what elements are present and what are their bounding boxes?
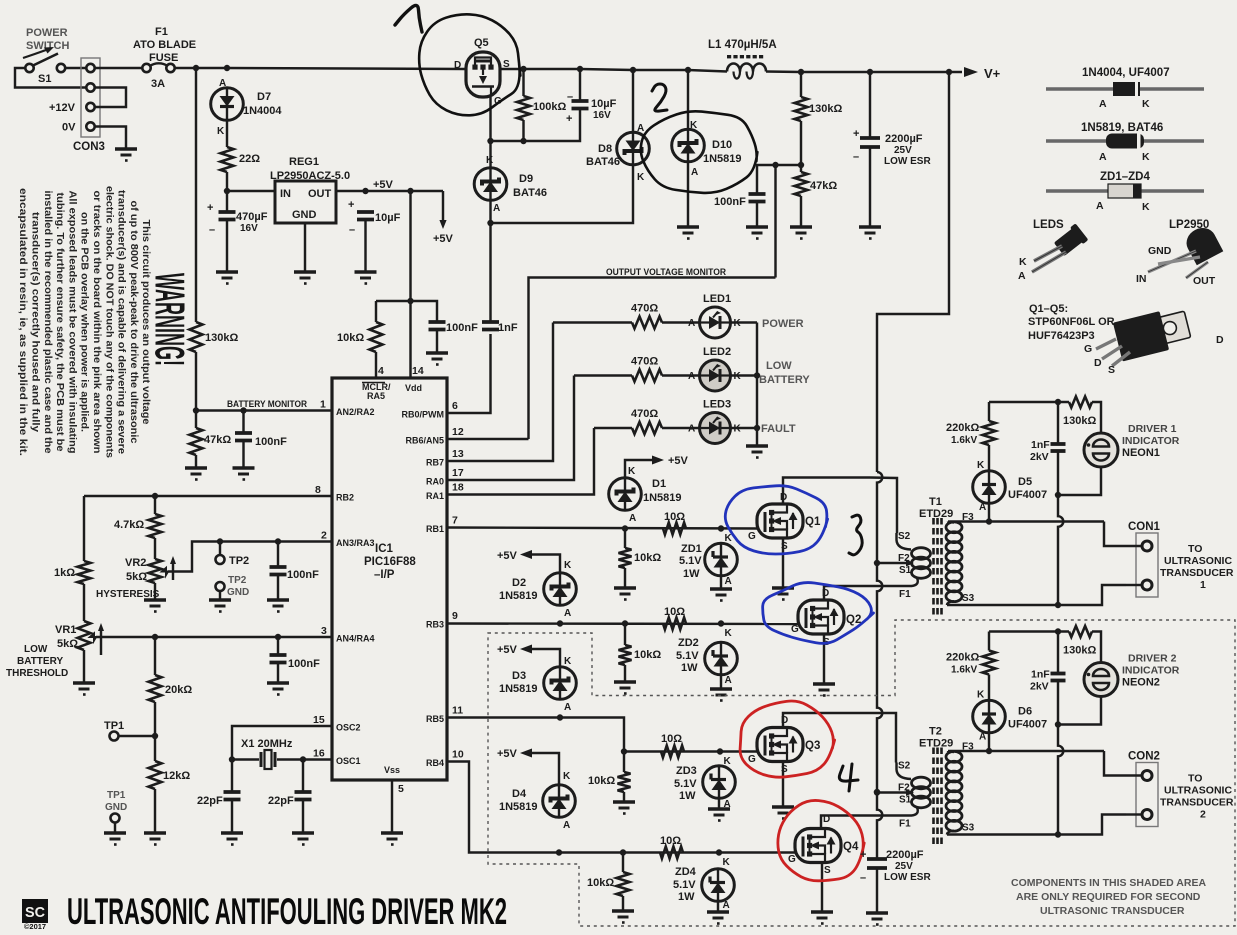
junction 2200uF2 <box>874 789 880 795</box>
annotation digit 1 <box>395 5 422 32</box>
svg-text:+5V: +5V <box>497 644 518 656</box>
inductor L1 <box>727 64 766 79</box>
label ZD3 <box>676 765 697 777</box>
label G of Q4 <box>788 854 796 865</box>
svg-text:NEON1: NEON1 <box>1122 447 1160 459</box>
svg-text:ULTRASONIC: ULTRASONIC <box>1164 785 1232 797</box>
label ZD4 1W <box>678 891 695 903</box>
label 10k row3 <box>588 775 615 787</box>
label S1 T1 <box>899 565 912 576</box>
VR1 adjust arrow <box>98 623 104 655</box>
svg-text:A: A <box>564 608 571 619</box>
capacitor 2200uF2 minus <box>860 872 866 884</box>
svg-text:LOW: LOW <box>766 360 792 372</box>
ground Q3 <box>772 807 794 819</box>
svg-text:NEON2: NEON2 <box>1122 677 1160 689</box>
resistor 470ohm LED1 <box>632 317 662 329</box>
wire D5 anode <box>988 503 990 522</box>
svg-text:4.7kΩ: 4.7kΩ <box>114 519 144 531</box>
wire L1 to V+ arrow <box>766 70 962 73</box>
diode D9 BAT46 <box>474 168 507 201</box>
resistor 47k fb <box>795 172 808 196</box>
label LOW led <box>766 360 792 372</box>
wire V+ vertical with hops <box>877 472 882 859</box>
svg-text:A: A <box>493 203 500 214</box>
svg-text:D4: D4 <box>512 788 527 800</box>
svg-text:D: D <box>1216 334 1224 346</box>
ground ZD4 <box>707 912 729 924</box>
label -I/P <box>374 569 395 581</box>
wire 10k1 gnd <box>624 568 626 587</box>
wire 47k batt stub <box>195 411 197 429</box>
label 470ohm LED2 <box>631 356 658 368</box>
wire F3 T2 <box>950 750 1104 752</box>
label 130k T2 <box>1063 645 1096 657</box>
svg-text:100nF: 100nF <box>446 322 478 334</box>
diode D8 BAT46 <box>617 132 650 165</box>
svg-text:G: G <box>1084 343 1092 355</box>
wire Q3 source gnd <box>782 762 784 807</box>
capacitor 10uF plus <box>348 199 354 211</box>
warning line 9 <box>42 191 53 454</box>
svg-text:K: K <box>486 155 494 166</box>
svg-text:VR2: VR2 <box>125 557 146 569</box>
svg-text:1W: 1W <box>681 662 698 674</box>
svg-text:F2: F2 <box>898 553 910 564</box>
svg-text:OUTPUT VOLTAGE MONITOR: OUTPUT VOLTAGE MONITOR <box>606 267 726 278</box>
svg-text:1nF: 1nF <box>1031 439 1050 451</box>
svg-text:BATTERY: BATTERY <box>759 374 810 386</box>
capacitor 470uF plus <box>207 202 213 214</box>
label AN2/RA2 <box>336 407 375 417</box>
ground 47k fb <box>790 227 812 239</box>
label A of D2 <box>564 608 571 619</box>
svg-text:10µF: 10µF <box>591 98 617 110</box>
svg-text:HUF76423P3: HUF76423P3 <box>1028 330 1095 342</box>
svg-text:1nF: 1nF <box>498 322 518 334</box>
wire CON2 bottom pin <box>1126 813 1141 815</box>
svg-text:D9: D9 <box>519 173 533 185</box>
svg-text:220kΩ: 220kΩ <box>946 422 979 434</box>
svg-text:RA5: RA5 <box>367 391 385 401</box>
label X1 20MHz <box>241 738 293 750</box>
svg-text:TRANSDUCER: TRANSDUCER <box>1160 797 1234 809</box>
svg-text:1: 1 <box>1200 579 1206 591</box>
svg-text:F2: F2 <box>898 783 910 794</box>
label K of ZD1 <box>725 533 733 544</box>
junction 10uF top <box>362 188 368 194</box>
label G of Q1 <box>748 531 756 542</box>
label ZD1 <box>681 543 702 555</box>
svg-text:K: K <box>977 460 985 471</box>
label TRANSDUCER 1 <box>1160 567 1234 579</box>
svg-text:1N5819: 1N5819 <box>703 153 742 165</box>
label 10ohm row1 <box>664 511 685 523</box>
fuse F1 <box>142 63 174 72</box>
ground 10k row1 <box>614 588 636 600</box>
wire TP2 <box>219 542 221 556</box>
svg-text:D: D <box>454 60 461 71</box>
svg-text:13: 13 <box>452 448 464 460</box>
wire VR2 wiper out <box>168 542 332 572</box>
label CON3 <box>73 141 105 153</box>
label D9 <box>519 173 533 185</box>
svg-text:or tracks on the board within: or tracks on the board within the pink a… <box>91 191 102 454</box>
label OUTPUT VOLTAGE MONITOR <box>606 267 726 278</box>
neon NEON2 <box>1084 663 1118 697</box>
svg-text:ZD1: ZD1 <box>681 543 702 555</box>
svg-text:IN: IN <box>280 188 291 200</box>
zener ZD1 <box>705 543 738 576</box>
label D2 <box>512 577 526 589</box>
label OSC2 <box>336 723 361 733</box>
transistor Q1 <box>757 504 803 538</box>
label 470ohm LED3 <box>631 408 658 420</box>
resistor 100k <box>517 96 530 120</box>
wire CON2 top pin <box>1104 751 1141 776</box>
svg-text:8: 8 <box>315 484 321 496</box>
wire 470 to LED3 <box>662 427 700 429</box>
wire 10k2 gnd <box>624 665 626 681</box>
svg-text:encapsulated in resin, ie, as: encapsulated in resin, ie, as supplied i… <box>17 188 28 456</box>
wire 470 to LED1 <box>662 321 700 323</box>
wire Q1 drain <box>783 478 870 505</box>
svg-text:A: A <box>725 576 732 587</box>
svg-text:ZD4: ZD4 <box>675 866 697 878</box>
svg-text:ZD1–ZD4: ZD1–ZD4 <box>1100 171 1150 183</box>
wire S1 to CON3 pin1 <box>65 67 86 69</box>
label pin15 <box>313 714 325 726</box>
label V+ <box>984 66 1001 81</box>
label pin7 <box>452 515 458 527</box>
svg-text:100nF: 100nF <box>288 658 320 670</box>
svg-text:K: K <box>723 857 731 868</box>
diode D1 1N5819 <box>609 478 642 511</box>
junction sense S3 T2 <box>1055 831 1061 837</box>
label G of Q5 <box>494 96 502 107</box>
svg-text:K: K <box>564 560 572 571</box>
ground Q4 <box>811 912 833 924</box>
legend LP2950 package <box>1148 223 1223 278</box>
resistor 10ohm row2 <box>663 618 686 630</box>
label BAT46 <box>586 156 620 168</box>
wire 100nF an4 gnd <box>277 663 279 683</box>
switch S1 <box>25 54 65 73</box>
svg-text:TRANSDUCER: TRANSDUCER <box>1160 567 1234 579</box>
transistor Q4 <box>795 829 841 863</box>
svg-text:S1: S1 <box>38 73 51 85</box>
svg-text:S: S <box>824 865 831 876</box>
label PIC16F88 <box>364 556 416 568</box>
wire 4.7k to VR2 <box>154 538 156 559</box>
label S1 <box>38 73 51 85</box>
svg-text:STP60NF06L OR: STP60NF06L OR <box>1028 316 1115 328</box>
junction gate node 490 <box>487 138 493 144</box>
svg-text:INDICATOR: INDICATOR <box>1122 665 1180 677</box>
label legend A1 <box>1099 98 1107 110</box>
svg-text:transducer(s) and is capable o: transducer(s) and is capable of deliveri… <box>116 190 127 454</box>
svg-text:5.1V: 5.1V <box>674 778 697 790</box>
ground ZD3 <box>708 809 730 821</box>
svg-text:0V: 0V <box>62 122 76 134</box>
wire 1k to VR1 <box>83 584 85 621</box>
svg-text:1N5819: 1N5819 <box>643 492 682 504</box>
wire 1nF to node T2 with hop <box>1058 681 1063 835</box>
label K of D9 <box>486 155 494 166</box>
ground led bus <box>746 446 768 458</box>
label LOW bat <box>24 644 48 655</box>
junction ZD1 <box>718 525 724 531</box>
annotation circle around D10 <box>641 111 758 193</box>
resistor 470ohm LED3 <box>632 422 662 434</box>
svg-text:CON3: CON3 <box>73 141 105 153</box>
svg-text:+5V: +5V <box>497 748 518 760</box>
svg-text:RA1: RA1 <box>426 491 444 501</box>
label A LED3 <box>688 424 695 435</box>
label K of ZD4 <box>723 857 731 868</box>
label A of D9 <box>493 203 500 214</box>
annotation digit 2 <box>652 84 667 111</box>
label NEON2 <box>1122 677 1160 689</box>
wire 22pF right gnd <box>302 800 304 833</box>
wire ZD4 gnd <box>717 902 719 912</box>
svg-text:All exposed leads must be cove: All exposed leads must be covered with i… <box>66 191 77 454</box>
junction D5 anode <box>986 518 992 524</box>
svg-text:GND: GND <box>1148 245 1172 257</box>
label RB7 <box>426 458 444 468</box>
svg-text:–: – <box>349 224 355 236</box>
wire 1nF drop T2 <box>1057 632 1059 674</box>
wire D9 anode down <box>489 200 491 224</box>
label FAULT led <box>761 423 796 435</box>
resistor 4.7k <box>149 514 162 538</box>
label ZD4 5.1V <box>673 879 696 891</box>
svg-text:130kΩ: 130kΩ <box>1063 415 1096 427</box>
wire D8 top to rail <box>632 70 634 133</box>
wire D7 to 22ohm <box>226 120 228 148</box>
label legend 1N5819 BAT46 <box>1081 122 1163 134</box>
junction ZD4 <box>716 849 722 855</box>
wire fuse node down <box>195 68 197 322</box>
svg-text:D7: D7 <box>257 91 271 103</box>
svg-text:K: K <box>1142 201 1150 213</box>
label shaded note 3 <box>1040 905 1185 917</box>
legend diode 1N4004 <box>1046 82 1204 96</box>
wire pin6 <box>447 334 491 413</box>
svg-text:L1 470µH/5A: L1 470µH/5A <box>708 39 777 51</box>
svg-text:POWER: POWER <box>762 318 804 330</box>
svg-text:tubing. To further ensure safe: tubing. To further ensure safety, the PC… <box>54 193 65 452</box>
VR2 adjust arrow <box>170 556 176 580</box>
svg-text:ARE ONLY REQUIRED FOR SECOND: ARE ONLY REQUIRED FOR SECOND <box>1016 891 1201 903</box>
capacitor 2200uF no2 <box>867 859 887 868</box>
wire 220k to D5 <box>988 445 990 470</box>
wire vdd pin14 <box>409 301 411 378</box>
label A of D5 <box>979 502 986 513</box>
svg-text:Q1: Q1 <box>805 516 821 528</box>
label TP1 GND a <box>107 790 126 801</box>
wire LED2 to bus <box>731 374 758 376</box>
resistor 10ohm row3 <box>661 746 684 758</box>
label D4 <box>512 788 527 800</box>
diode D6 UF4007 <box>973 700 1006 733</box>
label legend IN <box>1136 273 1147 285</box>
warning line 2 <box>128 201 139 444</box>
diode D5 UF4007 <box>973 471 1006 504</box>
label RA5 <box>367 391 385 401</box>
wire xtal right <box>277 758 303 760</box>
svg-text:transducer(s) correctly housed: transducer(s) correctly housed and fully <box>30 212 41 432</box>
arrowhead +5V D4 <box>520 749 532 758</box>
ground 10uF <box>355 272 377 284</box>
label A of D8 <box>637 123 644 134</box>
label pin14 <box>412 365 424 377</box>
wire node to D8 cathode <box>491 164 634 223</box>
label legend S q <box>1108 364 1115 376</box>
wire output voltage monitor <box>529 278 776 440</box>
svg-text:RB6/AN5: RB6/AN5 <box>405 436 444 446</box>
svg-text:1N5819: 1N5819 <box>499 590 538 602</box>
label DRIVER 1 <box>1128 423 1177 435</box>
label legend D q <box>1094 357 1102 369</box>
legend LED package <box>1032 223 1088 272</box>
wire node to REG IN <box>227 190 275 192</box>
junction gate node 523 <box>520 138 526 144</box>
wire 20k to TP1 node <box>154 702 156 736</box>
svg-text:OUT: OUT <box>1193 275 1216 287</box>
wire led bus <box>756 323 758 446</box>
label K LED1 <box>734 318 742 329</box>
svg-text:ETD29: ETD29 <box>919 738 953 750</box>
label ZD4 <box>675 866 697 878</box>
wire V+ drop right <box>877 72 949 472</box>
wire 220k to D6 <box>988 675 990 700</box>
capacitor 10uF 16V <box>572 101 589 109</box>
svg-text:ULTRASONIC TRANSDUCER: ULTRASONIC TRANSDUCER <box>1040 905 1185 917</box>
svg-text:D5: D5 <box>1018 476 1032 488</box>
label HYSTERESIS <box>96 589 160 600</box>
svg-text:130kΩ: 130kΩ <box>205 332 238 344</box>
wire 130k to node <box>800 121 802 165</box>
svg-text:+: + <box>860 849 866 861</box>
label 1.6kV T2 <box>951 665 977 676</box>
capacitor 10uF <box>357 212 374 220</box>
label ZD3 1W <box>679 790 696 802</box>
wire ZD2 gnd <box>720 675 722 688</box>
label T1 <box>929 496 942 508</box>
label 100nF an4 <box>288 658 320 670</box>
svg-text:A: A <box>688 371 695 382</box>
diode D2 1N5819 <box>544 573 577 606</box>
capacitor 1nF 2kV T2 <box>1051 674 1066 681</box>
diode D4 1N5819 <box>543 785 576 818</box>
ground 100nF batt <box>233 468 255 480</box>
label 1k <box>54 567 75 579</box>
junction 1nF top T1 <box>1055 399 1061 405</box>
svg-text:10: 10 <box>452 749 464 761</box>
svg-text:2kV: 2kV <box>1030 681 1049 693</box>
label UF4007 D5 <box>1008 489 1047 501</box>
wire REG GND to ground <box>304 223 306 272</box>
svg-text:A: A <box>723 900 730 911</box>
svg-text:10Ω: 10Ω <box>664 606 685 618</box>
ground 47k batt <box>185 468 207 480</box>
svg-text:+: + <box>207 202 213 214</box>
potentiometer VR2 5k <box>149 559 162 583</box>
svg-text:ULTRASONIC: ULTRASONIC <box>1164 555 1232 567</box>
wire RB5 jog <box>560 718 624 752</box>
svg-text:1W: 1W <box>678 891 695 903</box>
svg-text:LED3: LED3 <box>703 399 731 411</box>
label S of Q1 <box>781 541 788 552</box>
junction TP1 <box>152 733 158 739</box>
label 10ohm row3 <box>661 733 682 745</box>
svg-text:ZD2: ZD2 <box>678 637 699 649</box>
label VR1 5k <box>57 638 78 650</box>
wire 220k top T2 <box>988 632 990 651</box>
label A of ZD4 <box>723 900 730 911</box>
label D of Q5 <box>454 60 461 71</box>
svg-text:S: S <box>1108 364 1115 376</box>
ground REG1 <box>294 272 316 284</box>
wire 100nF vdd gnd <box>436 330 438 353</box>
svg-text:A: A <box>688 318 695 329</box>
annotation circle around Q5 <box>419 14 520 115</box>
junction D1 row <box>622 525 628 531</box>
label 470ohm LED1 <box>631 303 658 315</box>
svg-text:SC: SC <box>25 904 45 921</box>
svg-text:2200µF: 2200µF <box>886 849 924 861</box>
svg-text:F1: F1 <box>899 589 911 600</box>
label F2 T2 <box>898 783 910 794</box>
junction fuse-rail <box>193 65 199 71</box>
svg-text:S3: S3 <box>962 823 975 834</box>
label 10k row2 <box>634 649 661 661</box>
ground VR2 <box>144 600 166 612</box>
regulator REG1 box <box>275 181 336 223</box>
resistor 130k T2 <box>1069 626 1092 637</box>
label INDICATOR 1 <box>1122 435 1180 447</box>
svg-text:RB3: RB3 <box>426 620 444 630</box>
svg-text:25V: 25V <box>895 861 913 872</box>
wire D2 +5V <box>531 555 560 573</box>
label 22ohm <box>239 153 260 165</box>
wire LED2 row <box>574 374 632 376</box>
svg-text:LEDS: LEDS <box>1033 219 1064 231</box>
junction 100k top <box>520 66 526 72</box>
svg-text:10kΩ: 10kΩ <box>588 775 615 787</box>
label S of Q2 <box>823 637 830 648</box>
junction D10 rail <box>685 67 691 73</box>
ground ZD2 <box>710 689 732 701</box>
svg-text:AN2/RA2: AN2/RA2 <box>336 407 375 417</box>
transistor Q2 <box>798 600 844 634</box>
ground 2200uF no1 <box>859 227 881 239</box>
svg-text:CON1: CON1 <box>1128 521 1161 533</box>
label D3 <box>512 670 526 682</box>
svg-text:K: K <box>1142 151 1150 163</box>
label IC1 <box>375 543 394 555</box>
svg-text:7: 7 <box>452 515 458 527</box>
label DRIVER 2 <box>1128 653 1177 665</box>
crystal X1 <box>261 750 275 769</box>
svg-text:–: – <box>860 872 866 884</box>
label ZD3 5.1V <box>674 778 697 790</box>
label ULTRASONIC 1 <box>1164 555 1232 567</box>
svg-text:16V: 16V <box>240 223 258 234</box>
svg-text:PIC16F88: PIC16F88 <box>364 556 416 568</box>
label VR1 <box>55 624 76 636</box>
